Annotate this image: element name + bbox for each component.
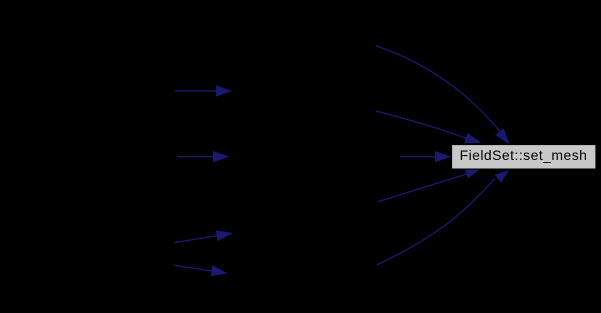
svg-text:FieldSet::set_mesh: FieldSet::set_mesh xyxy=(460,147,588,163)
